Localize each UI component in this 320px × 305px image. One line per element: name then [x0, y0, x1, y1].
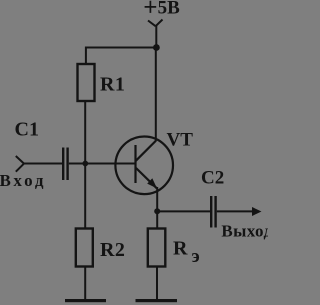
power terminal fork	[148, 20, 163, 27]
svg-text:э: э	[192, 246, 200, 267]
ground bar left	[65, 299, 106, 302]
power label +5В	[145, 1, 157, 13]
node base junction	[82, 161, 88, 167]
svg-text:Вход: Вход	[0, 171, 46, 190]
input terminal fork	[16, 156, 24, 172]
wire C2 to output	[217, 210, 254, 212]
node junction top	[153, 44, 160, 51]
svg-text:VT: VT	[167, 129, 194, 150]
wire emitter junction to C2	[157, 210, 210, 212]
svg-text:R1: R1	[100, 73, 125, 95]
wire R1 bottom to R2	[84, 101, 86, 229]
resistor R2	[76, 229, 93, 267]
ground bar right	[136, 299, 178, 302]
wire R2 to ground	[84, 267, 86, 301]
capacitor C2	[210, 196, 217, 228]
resistor R1	[78, 64, 95, 101]
wire Rэ to ground	[156, 267, 158, 301]
svg-text:R: R	[173, 238, 188, 260]
transistor collector line	[136, 141, 156, 161]
wire collector rail	[155, 48, 157, 142]
transistor emitter arrowhead	[147, 178, 157, 188]
transistor base bar	[134, 145, 136, 183]
label Rэ	[173, 238, 200, 267]
svg-text:C1: C1	[15, 119, 39, 141]
wire R1 top lead	[85, 47, 87, 65]
resistor Rэ	[148, 229, 166, 267]
svg-text:R2: R2	[100, 239, 125, 261]
svg-text:5В: 5В	[158, 0, 181, 19]
wire top horizontal to R1	[85, 47, 157, 49]
wire C1 to base	[69, 163, 135, 165]
svg-text:C2: C2	[201, 168, 224, 189]
svg-text:Выход: Выход	[221, 221, 268, 240]
transistor emitter line	[136, 168, 157, 188]
wire power stem	[155, 26, 157, 49]
node emitter junction	[154, 208, 160, 214]
capacitor C1	[62, 148, 69, 181]
wire input to C1	[23, 163, 62, 165]
transistor VT circle	[115, 137, 173, 195]
wire emitter down	[156, 187, 158, 229]
output arrowhead	[252, 207, 262, 216]
